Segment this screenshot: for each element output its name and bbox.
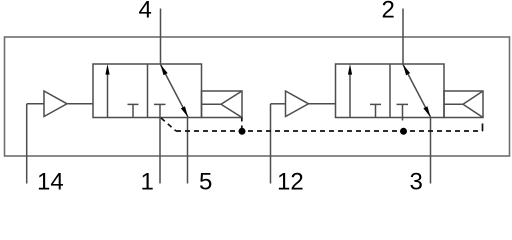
wire port 3 bbox=[430, 117, 432, 184]
wire port 12 horizontal bbox=[271, 103, 286, 105]
valve V2 blocked port T left square bbox=[370, 104, 381, 117]
valve V1 body bbox=[93, 64, 202, 118]
wire port 1 bbox=[159, 104, 161, 183]
valve V1 flow arrow (left square) bbox=[105, 64, 109, 118]
pilot amplifier triangle 14 bbox=[44, 91, 67, 117]
pilot return box V1 bbox=[202, 91, 243, 118]
wire port 12 vertical bbox=[270, 104, 272, 184]
valve V2 blocked port T right square bbox=[397, 104, 409, 120]
wire port 2 bbox=[402, 9, 404, 65]
wire port 14 vertical bbox=[26, 104, 28, 184]
wire pilot 12 to valve V2 bbox=[309, 103, 336, 105]
valve V1 blocked port T left square bbox=[128, 104, 139, 117]
dashed stub to pilot box V2 bbox=[482, 118, 484, 132]
wire port 4 bbox=[160, 9, 162, 65]
valve V2 flow arrow (left square) bbox=[348, 64, 352, 118]
svg-text:12: 12 bbox=[277, 169, 304, 194]
valve V2 switching diagonal with arrowheads bbox=[403, 65, 431, 118]
junction dot A bbox=[239, 128, 246, 135]
pilot amplifier triangle 12 bbox=[286, 91, 309, 117]
wire port 14 horizontal bbox=[27, 103, 44, 105]
svg-text:1: 1 bbox=[141, 169, 154, 194]
svg-text:5: 5 bbox=[199, 169, 212, 194]
pilot return box V2 bbox=[444, 91, 483, 118]
valve V2 body bbox=[336, 64, 445, 118]
svg-text:3: 3 bbox=[410, 169, 423, 194]
dashed stub to pilot box V1 bbox=[241, 118, 243, 129]
svg-text:2: 2 bbox=[382, 0, 395, 24]
junction dot B bbox=[400, 128, 407, 135]
dashed pilot supply horizontal line bbox=[176, 130, 483, 132]
enclosure border bbox=[5, 37, 510, 156]
svg-text:4: 4 bbox=[139, 0, 152, 24]
valve V1 switching diagonal with arrowheads bbox=[161, 65, 189, 118]
svg-text:14: 14 bbox=[37, 169, 64, 194]
wire pilot 14 to valve V1 bbox=[67, 103, 93, 105]
dashed pilot supply diagonal from port 1 bbox=[161, 118, 176, 131]
valve V1 blocked port T right square bbox=[154, 103, 166, 105]
wire port 5 bbox=[187, 117, 189, 184]
